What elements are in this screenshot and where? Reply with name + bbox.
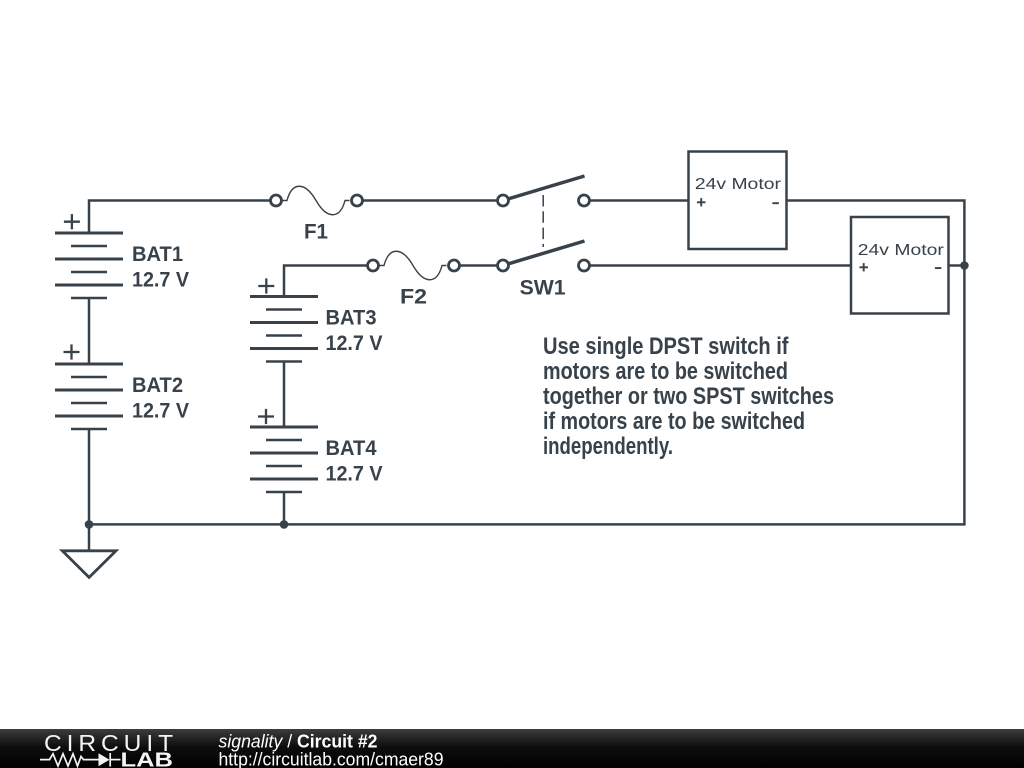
junction dot bus-right xyxy=(960,261,969,270)
junction dot bottom-left xyxy=(85,520,94,529)
svg-text:SW1: SW1 xyxy=(520,277,566,300)
fuse F1 element (wavy) xyxy=(283,186,350,215)
fuse F2 terminal circles xyxy=(368,260,379,271)
switch SW1 gang link (dashed) xyxy=(542,195,544,247)
wire BAT3 plus up and across to F2 xyxy=(284,266,373,297)
svg-text:motors are to be switched: motors are to be switched xyxy=(543,358,788,385)
svg-text:BAT3: BAT3 xyxy=(326,307,377,330)
wire top net: BAT1 plus up and across to F1 xyxy=(89,201,276,234)
wire F2 to SW1 bottom left xyxy=(454,264,503,267)
svg-text:Use single DPST switch if: Use single DPST switch if xyxy=(543,333,789,360)
polarity mark + (BAT4) xyxy=(258,409,274,424)
svg-text:12.7 V: 12.7 V xyxy=(326,332,383,355)
battery BAT1 xyxy=(55,233,123,298)
switch SW1 pole A lever xyxy=(506,176,585,200)
svg-text:if motors are to be switched: if motors are to be switched xyxy=(543,408,805,435)
footer bar xyxy=(0,729,1024,768)
polarity mark + (BAT1) xyxy=(64,214,80,229)
svg-text:12.7 V: 12.7 V xyxy=(132,400,189,423)
wire BAT2 to bottom bus xyxy=(88,429,91,524)
switch SW1 pole B lever xyxy=(506,241,585,265)
wire BAT4 to bottom bus xyxy=(283,492,286,524)
wire ground stem xyxy=(88,524,91,551)
svg-text:BAT2: BAT2 xyxy=(132,374,183,397)
logo resistor-diode glyph xyxy=(40,753,121,767)
svg-text:BAT1: BAT1 xyxy=(132,243,183,266)
wire M1 right to bus and down and bottom across xyxy=(89,201,964,525)
motor M1 box xyxy=(689,152,787,250)
pin + (M1) xyxy=(697,198,706,206)
battery BAT3 xyxy=(250,297,318,362)
svg-text:independently.: independently. xyxy=(543,433,673,460)
svg-text:F2: F2 xyxy=(400,286,427,309)
svg-text:together or two SPST switches: together or two SPST switches xyxy=(543,383,834,410)
note text xyxy=(543,333,834,460)
svg-text:F1: F1 xyxy=(304,221,328,244)
motor M2 box xyxy=(851,217,949,314)
svg-text:24v Motor: 24v Motor xyxy=(695,176,782,193)
junction dot bottom-mid xyxy=(280,520,289,529)
svg-text:BAT4: BAT4 xyxy=(326,437,377,460)
wire M2 right to bus xyxy=(949,264,965,267)
pin - (M1) xyxy=(772,202,779,204)
svg-text:LAB: LAB xyxy=(121,750,174,768)
svg-text:12.7 V: 12.7 V xyxy=(132,269,189,292)
fuse F2 element (wavy) xyxy=(380,251,447,280)
svg-text:24v Motor: 24v Motor xyxy=(858,242,945,259)
switch SW1 pole A terminals xyxy=(498,195,509,206)
wire F1 to SW1 top left xyxy=(357,199,503,202)
wire SW1 top right to motor M1 xyxy=(584,199,689,202)
svg-text:12.7 V: 12.7 V xyxy=(326,463,383,486)
wire BAT3 to BAT4 xyxy=(283,362,286,428)
switch SW1 pole B terminals xyxy=(498,260,509,271)
polarity mark + (BAT3) xyxy=(258,278,274,293)
pin + (M2) xyxy=(860,263,869,271)
ground xyxy=(62,551,116,578)
polarity mark + (BAT2) xyxy=(64,344,80,359)
battery BAT2 xyxy=(55,364,123,429)
wire SW1 bottom right to motor M2 xyxy=(584,264,851,267)
wire BAT1 to BAT2 xyxy=(88,298,91,364)
fuse F1 terminal circles xyxy=(271,195,282,206)
svg-text:http://circuitlab.com/cmaer89: http://circuitlab.com/cmaer89 xyxy=(219,749,444,768)
battery BAT4 xyxy=(250,427,318,492)
pin - (M2) xyxy=(935,267,942,269)
